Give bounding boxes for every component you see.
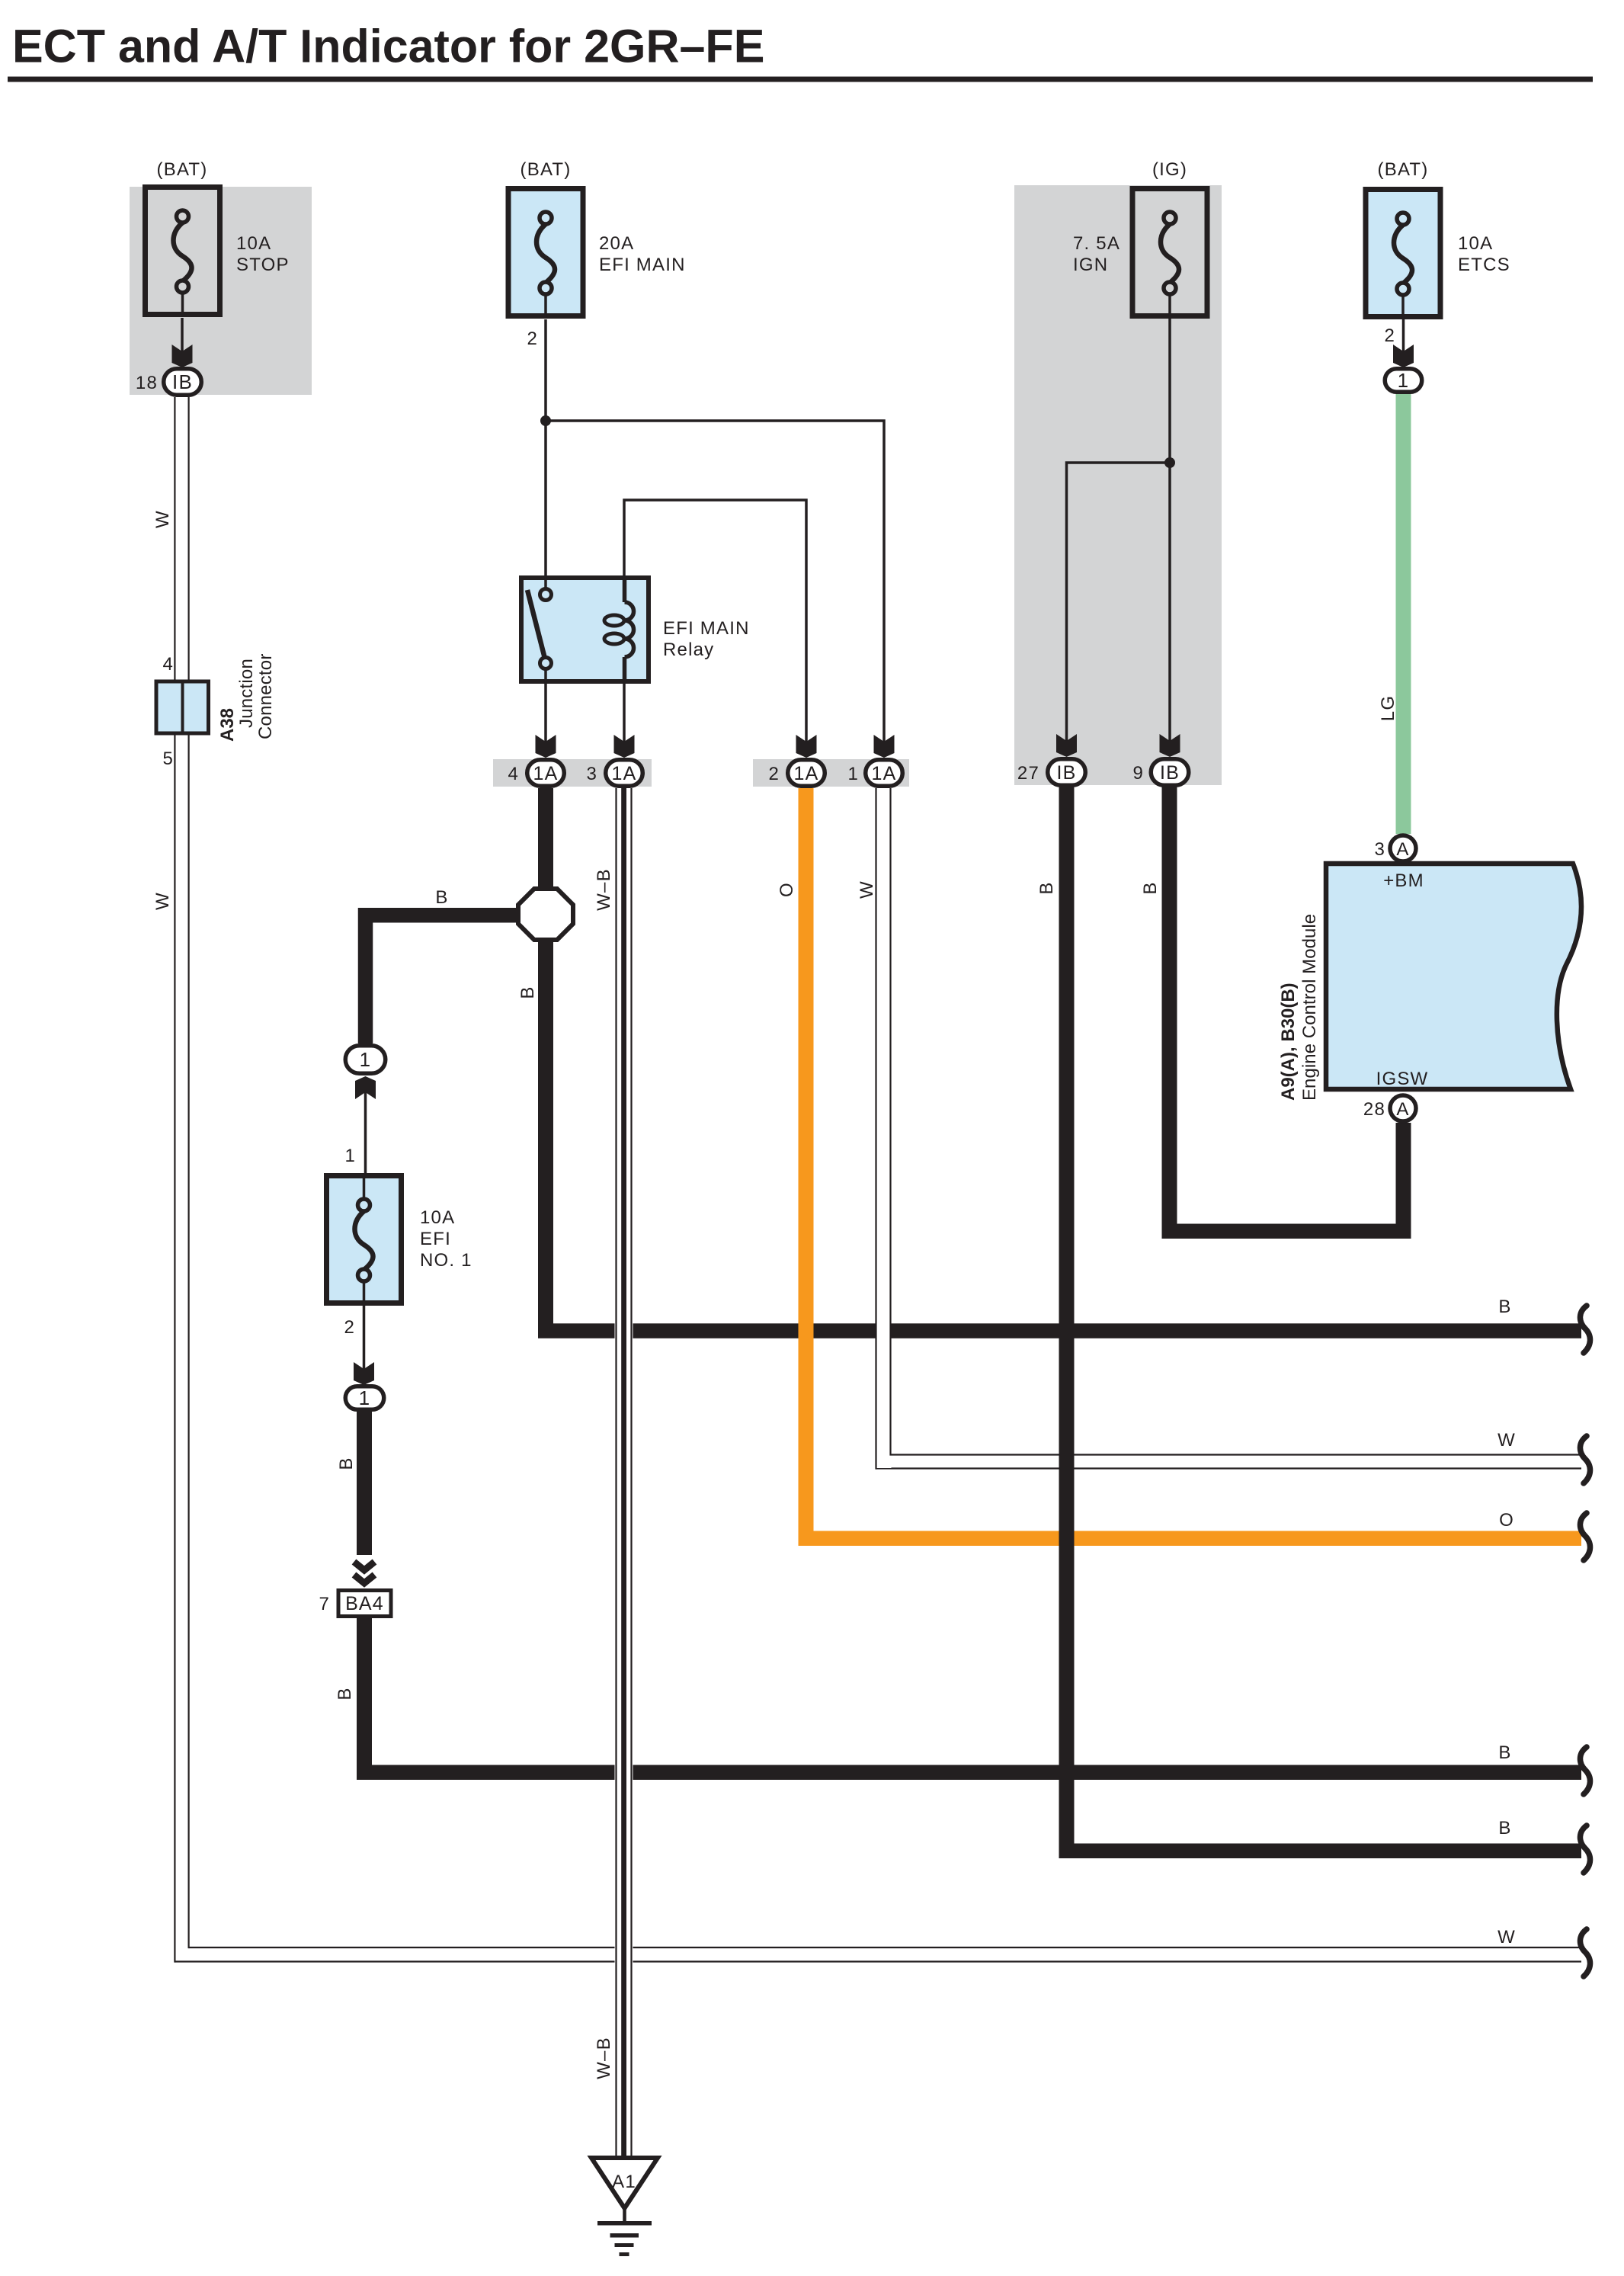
svg-text:2: 2	[1384, 325, 1395, 346]
arrow into 1-1A	[874, 735, 895, 758]
ECM engine control module block	[1326, 864, 1581, 1089]
svg-text:1: 1	[1398, 369, 1410, 392]
svg-text:B: B	[1498, 1297, 1511, 1317]
svg-text:Connector: Connector	[255, 653, 276, 739]
svg-text:IGSW: IGSW	[1376, 1069, 1429, 1089]
connector BA4	[338, 1591, 391, 1617]
svg-text:7. 5A: 7. 5A	[1073, 233, 1120, 254]
wire LG green from connector 1 to ECM +BM	[1396, 393, 1411, 834]
wire O orange from 2-1A down to corner	[799, 788, 814, 1545]
svg-text:1: 1	[847, 764, 859, 784]
svg-text:ETCS: ETCS	[1458, 255, 1510, 275]
break symbol wire O	[1580, 1513, 1590, 1560]
svg-text:18: 18	[136, 373, 158, 393]
svg-text:IB: IB	[1056, 762, 1076, 784]
wire W horizontal from 1-1A to right edge (double line)	[891, 1454, 1582, 1455]
svg-text:20A: 20A	[599, 233, 634, 254]
ECM pin 3 A circle	[1390, 835, 1416, 861]
svg-text:7: 7	[319, 1594, 330, 1614]
connector 2-1A oval	[788, 760, 825, 787]
svg-text:2: 2	[527, 329, 538, 349]
svg-text:1A: 1A	[612, 763, 637, 784]
svg-text:NO. 1: NO. 1	[420, 1250, 472, 1271]
svg-text:1: 1	[360, 1048, 372, 1071]
connector 4-1A oval	[527, 760, 565, 787]
svg-text:W: W	[1497, 1927, 1516, 1947]
wire O horizontal from 2-1A to right edge	[799, 1531, 1582, 1547]
svg-text:1: 1	[359, 1386, 371, 1409]
fuse 10A STOP	[146, 188, 220, 318]
svg-text:B: B	[435, 887, 448, 908]
svg-text:W: W	[152, 892, 173, 910]
arrow into 4-1A	[536, 735, 556, 758]
svg-text:B: B	[1498, 1818, 1511, 1838]
svg-text:1A: 1A	[533, 763, 559, 784]
svg-text:4: 4	[508, 764, 519, 784]
svg-text:1A: 1A	[872, 763, 897, 784]
wire B thick from 4-1A through octagon down then (already drawn horizontal)	[538, 788, 553, 1331]
svg-text:O: O	[777, 882, 797, 897]
svg-text:(BAT): (BAT)	[157, 159, 208, 180]
junction node	[540, 415, 551, 426]
svg-text:Junction: Junction	[236, 659, 257, 728]
fuse 10A EFI NO.1	[327, 1173, 402, 1306]
fuse 7.5A IGN	[1132, 189, 1207, 319]
svg-text:B: B	[1036, 881, 1057, 894]
svg-text:A1: A1	[612, 2172, 636, 2192]
svg-text:ECT and A/T Indicator for 2GR–: ECT and A/T Indicator for 2GR–FE	[12, 21, 764, 72]
wire thin EFI NO.1 pin 2 to oval 1	[363, 1306, 366, 1370]
wire thin relay switch bottom to 4-1A	[544, 680, 547, 742]
svg-text:EFI MAIN: EFI MAIN	[599, 255, 686, 275]
svg-text:B: B	[335, 1687, 355, 1700]
arrow into 3-1A	[614, 735, 635, 758]
wire thin arrow to EFI NO.1 fuse pin 1	[364, 1092, 367, 1173]
oval connector 1 (to EFI NO.1)	[345, 1046, 386, 1074]
svg-text:5: 5	[162, 749, 174, 769]
svg-text:27: 27	[1017, 763, 1039, 784]
svg-text:Relay: Relay	[663, 640, 714, 660]
wire W from 1-1A down to corner (double line)	[877, 788, 892, 1468]
octagon splice	[518, 889, 573, 940]
wire W from 18-IB down left side (double line)	[174, 397, 175, 1963]
svg-text:W: W	[857, 880, 877, 899]
svg-text:W–B: W–B	[594, 2037, 614, 2079]
arrow into oval 1 (below EFI NO.1)	[354, 1362, 374, 1385]
junction node IGN	[1164, 457, 1175, 468]
wire thin relay coil bottom to 3-1A	[623, 680, 626, 742]
break symbol wire B2	[1580, 1747, 1590, 1794]
svg-text:A: A	[1396, 839, 1409, 860]
svg-text:IB: IB	[172, 370, 193, 393]
svg-text:EFI MAIN: EFI MAIN	[663, 618, 750, 639]
svg-text:STOP: STOP	[236, 255, 290, 275]
gray panel around STOP fuse	[130, 187, 312, 395]
break symbol wire B3	[1580, 1826, 1590, 1873]
wire thin from EFI MAIN fuse pin 2 down to junction	[544, 319, 547, 421]
wire thin junction to relay switch	[544, 421, 547, 578]
arrow into 27-IB	[1056, 734, 1077, 757]
wire B horizontal from 27-IB to right edge	[1059, 1844, 1582, 1859]
svg-text:A38: A38	[217, 708, 238, 742]
svg-text:W: W	[152, 510, 173, 528]
connector 3-1A oval	[606, 760, 643, 787]
svg-text:10A: 10A	[420, 1207, 455, 1228]
wire thin junction to 1-1A (up over right down)	[546, 421, 884, 742]
svg-text:W: W	[1497, 1430, 1516, 1451]
svg-text:B: B	[517, 986, 538, 999]
svg-text:O: O	[1499, 1510, 1514, 1531]
svg-text:28: 28	[1363, 1099, 1385, 1120]
svg-text:W–B: W–B	[594, 868, 614, 911]
svg-text:(BAT): (BAT)	[521, 159, 572, 180]
gray band behind 2-1A / 1-1A connectors	[753, 759, 909, 787]
svg-text:(BAT): (BAT)	[1378, 159, 1429, 180]
svg-text:B: B	[1140, 881, 1161, 894]
wire W-B from 3-1A down to ground A1 (white with black stripe)	[615, 788, 633, 2159]
wire B horizontal from BA4 to right edge	[357, 1765, 1581, 1781]
svg-text:10A: 10A	[236, 233, 271, 254]
wire thin relay coil to 2-1A (up over right down)	[624, 500, 806, 742]
relay EFI MAIN	[521, 575, 649, 684]
oval connector 1 (below EFI NO.1)	[345, 1386, 384, 1410]
break symbol wire W2	[1580, 1929, 1590, 1976]
svg-text:LG: LG	[1378, 695, 1398, 721]
wire B thick oval to BA4	[357, 1412, 372, 1555]
svg-text:B: B	[336, 1457, 357, 1470]
gray panel around IGN fuse	[1014, 185, 1222, 785]
arrow into connector 1 (ETCS)	[1393, 345, 1414, 367]
svg-text:Engine Control Module: Engine Control Module	[1299, 914, 1320, 1101]
svg-text:EFI: EFI	[420, 1229, 451, 1249]
svg-text:2: 2	[768, 764, 780, 784]
svg-text:1: 1	[344, 1146, 356, 1166]
svg-text:10A: 10A	[1458, 233, 1493, 254]
arrow into 9-IB	[1160, 734, 1180, 757]
svg-text:A: A	[1396, 1099, 1409, 1120]
svg-text:4: 4	[162, 654, 174, 675]
break symbol wire W1	[1580, 1436, 1590, 1483]
svg-text:A9(A), B30(B): A9(A), B30(B)	[1278, 983, 1299, 1101]
fuse 20A EFI MAIN	[508, 189, 583, 319]
wire thin from IGN fuse down to junction	[1168, 319, 1171, 463]
wire B thick branch octagon to left and down to connector 1	[366, 915, 534, 1043]
fuse 10A ETCS	[1366, 190, 1440, 320]
svg-text:9: 9	[1132, 763, 1144, 784]
connector 9-IB oval	[1151, 759, 1189, 786]
wire thin junction to 9-IB	[1168, 463, 1171, 742]
svg-text:(IG): (IG)	[1152, 159, 1187, 180]
svg-text:+BM: +BM	[1383, 870, 1424, 891]
wire B horizontal from octagon splice to right edge	[538, 1323, 1581, 1338]
wire W horizontal lower-left to right edge (double line)	[189, 1947, 1581, 1948]
wire thin ETCS fuse pin 2 to connector 1	[1402, 318, 1405, 352]
double chevron arrow into BA4	[354, 1562, 375, 1570]
break symbol wire B1	[1580, 1306, 1590, 1353]
wire thin from STOP fuse to 18-IB connector	[181, 318, 184, 352]
svg-text:1A: 1A	[794, 763, 819, 784]
svg-text:B: B	[1498, 1742, 1511, 1763]
connector 1-1A oval	[866, 760, 903, 787]
connector 18-IB oval	[164, 369, 202, 396]
svg-text:IGN: IGN	[1073, 255, 1108, 275]
ground A1	[591, 2158, 658, 2256]
arrow into 18-IB	[172, 345, 193, 367]
svg-text:BA4: BA4	[345, 1593, 384, 1614]
svg-text:IB: IB	[1160, 762, 1180, 784]
title underline	[8, 77, 1593, 82]
svg-text:3: 3	[1374, 839, 1385, 860]
svg-text:2: 2	[344, 1317, 355, 1338]
gray band behind 4-1A / 3-1A connectors	[493, 759, 652, 787]
ECM pin 28 A circle	[1390, 1095, 1416, 1121]
arrow up into oval 1	[355, 1076, 376, 1099]
connector 27-IB oval	[1048, 759, 1086, 786]
arrow into 2-1A	[796, 735, 817, 758]
connector oval 1 (ETCS)	[1385, 369, 1422, 393]
wire thin junction to 27-IB	[1067, 463, 1171, 742]
junction connector A38	[156, 681, 209, 733]
wire B thick from 9-IB down right and up to ECM IGSW	[1162, 786, 1411, 1239]
wire B thick from 27-IB down to corner	[1059, 786, 1075, 1858]
wire B thick BA4 down to corner (joins horizontal B2)	[357, 1618, 372, 1780]
svg-text:3: 3	[586, 764, 597, 784]
